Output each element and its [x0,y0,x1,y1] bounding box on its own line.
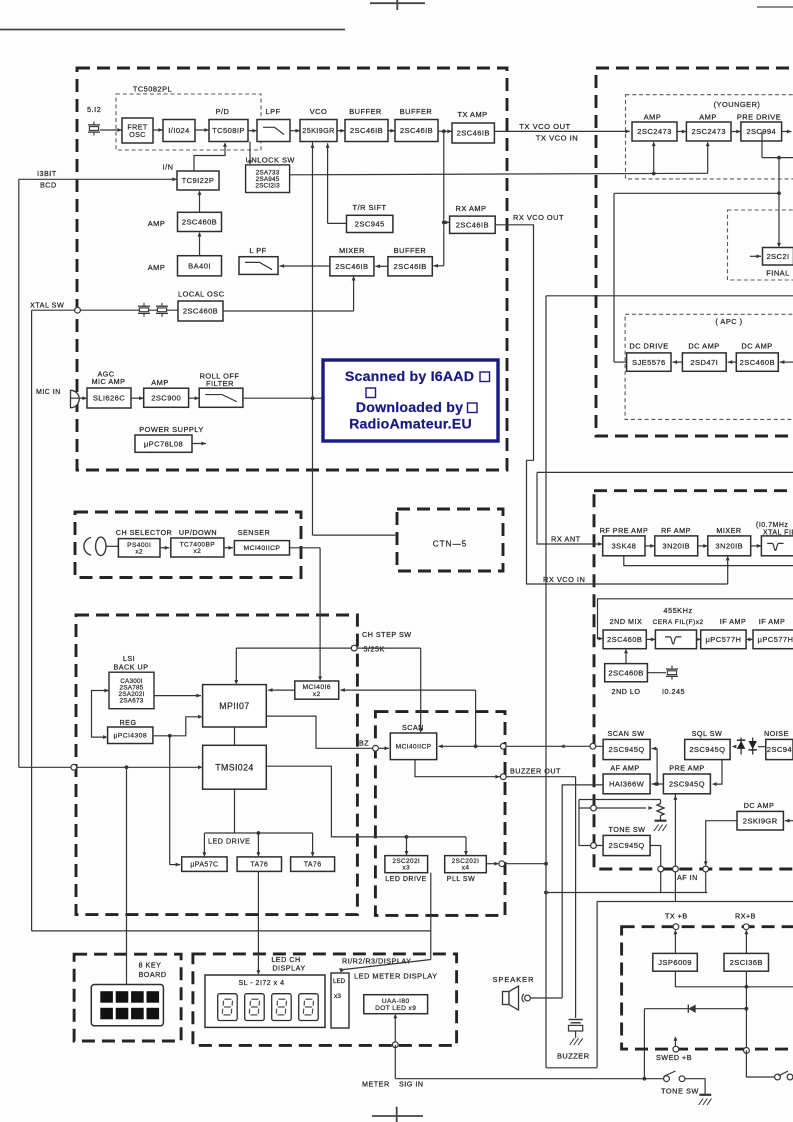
svg-text:MIXER: MIXER [339,246,365,255]
svg-text:XTAL SW: XTAL SW [30,301,64,310]
svg-text:BUFFER: BUFFER [349,107,382,116]
svg-text:MCI40IICP: MCI40IICP [244,545,281,552]
svg-text:BUZZER: BUZZER [557,1052,590,1061]
svg-text:(YOUNGER): (YOUNGER) [714,100,761,109]
svg-text:(I0.7MHz: (I0.7MHz [756,522,788,529]
svg-text:x3: x3 [402,865,410,872]
svg-text:2SC945: 2SC945 [355,220,385,229]
svg-text:VCO: VCO [310,107,328,116]
svg-text:OSC: OSC [129,130,146,139]
svg-text:TX AMP: TX AMP [457,110,487,119]
svg-text:2SC945Q: 2SC945Q [689,745,725,754]
svg-text:μPC78L08: μPC78L08 [144,439,183,448]
svg-text:RadioAmateur.EU: RadioAmateur.EU [349,417,472,433]
svg-text:TA76: TA76 [250,862,268,869]
svg-text:DOT LED x9: DOT LED x9 [375,1005,416,1012]
svg-text:2SC945Q: 2SC945Q [669,780,705,789]
svg-text:HAI366W: HAI366W [609,780,645,789]
svg-text:LED DRIVE: LED DRIVE [208,837,250,846]
svg-text:2ND MIX: 2ND MIX [610,617,643,626]
svg-text:MCI40I6: MCI40I6 [303,684,332,691]
svg-text:LED: LED [333,978,346,985]
svg-text:DC AMP: DC AMP [744,801,775,810]
svg-text:SJE5576: SJE5576 [632,358,666,367]
svg-text:2SCI36B: 2SCI36B [730,958,763,967]
svg-text:2SC945Q: 2SC945Q [609,745,645,754]
svg-text:UP/DOWN: UP/DOWN [179,528,217,537]
svg-text:2SC460B: 2SC460B [182,218,217,227]
svg-text:I/N: I/N [163,163,174,172]
svg-text:x2: x2 [313,691,321,698]
svg-text:2ND LO: 2ND LO [612,687,641,696]
svg-text:TMSI024: TMSI024 [215,762,254,772]
svg-text:x2: x2 [193,548,201,555]
svg-text:I0.245: I0.245 [662,687,685,696]
svg-text:2SC945Q: 2SC945Q [609,841,645,850]
svg-text:TA76: TA76 [304,862,322,869]
svg-text:BA40I: BA40I [188,262,211,271]
svg-text:BUZZER OUT: BUZZER OUT [510,767,561,776]
svg-text:BACK UP: BACK UP [113,662,148,671]
svg-text:UNLOCK SW: UNLOCK SW [246,156,295,165]
svg-text:I/I024: I/I024 [168,126,189,135]
svg-text:SQL SW: SQL SW [692,729,723,738]
svg-text:2SC994: 2SC994 [746,127,776,136]
svg-text:μPC577H: μPC577H [705,635,741,644]
svg-text:SCAN: SCAN [402,723,424,732]
svg-text:AMP: AMP [148,219,166,228]
svg-text:3N20IB: 3N20IB [715,542,743,551]
svg-text:DC AMP: DC AMP [688,342,719,351]
svg-text:2SC46IB: 2SC46IB [350,126,383,135]
svg-text:DC DRIVE: DC DRIVE [629,342,668,351]
svg-text:RI/R2/R3/DISPLAY: RI/R2/R3/DISPLAY [342,957,411,966]
svg-text:AF AMP: AF AMP [610,764,639,773]
svg-text:5.I2: 5.I2 [87,105,101,114]
svg-text:2SC2473: 2SC2473 [691,127,725,136]
svg-text:SCAN SW: SCAN SW [607,729,644,738]
svg-text:2SCI2I3: 2SCI2I3 [255,183,280,190]
svg-text:455KHz: 455KHz [663,606,692,615]
svg-text:MIC IN: MIC IN [36,389,61,396]
svg-text:Downloaded by: Downloaded by [356,400,463,416]
svg-text:RX AMP: RX AMP [456,204,487,213]
svg-text:3N20IB: 3N20IB [662,542,690,551]
svg-text:MPII07: MPII07 [219,701,249,711]
svg-text:5/25K: 5/25K [364,645,385,654]
svg-text:2SC46IB: 2SC46IB [335,262,368,271]
svg-text:REG: REG [119,718,136,727]
svg-text:TONE SW: TONE SW [661,1087,699,1096]
svg-text:T/R SIFT: T/R SIFT [353,203,387,212]
svg-text:LOCAL OSC: LOCAL OSC [178,290,225,299]
svg-text:AMP: AMP [148,263,166,272]
svg-text:METER: METER [362,1080,390,1089]
svg-text:BZ: BZ [359,739,369,748]
svg-text:2SC2473: 2SC2473 [637,127,671,136]
svg-text:IF AMP: IF AMP [759,617,786,626]
svg-text:LED DRIVE: LED DRIVE [385,876,426,883]
svg-text:CTN—5: CTN—5 [433,540,468,549]
svg-text:RF AMP: RF AMP [661,526,691,535]
svg-text:PLL SW: PLL SW [447,876,475,883]
svg-text:x2: x2 [135,549,143,556]
svg-text:2SC2I: 2SC2I [766,252,789,261]
svg-text:CH SELECTOR: CH SELECTOR [116,528,173,537]
svg-text:BOARD: BOARD [138,970,166,979]
svg-text:RX VCO IN: RX VCO IN [543,575,585,584]
svg-text:2SKI9GR: 2SKI9GR [743,816,778,825]
svg-text:x4: x4 [462,865,470,872]
svg-text:I3BIT: I3BIT [37,169,57,178]
svg-text:2SC46IB: 2SC46IB [393,262,426,271]
svg-text:FINAL: FINAL [766,269,789,278]
svg-text:POWER SUPPLY: POWER SUPPLY [139,425,204,434]
svg-text:2SC460B: 2SC460B [608,668,643,677]
svg-text:2SC900: 2SC900 [151,393,181,402]
svg-text:LED METER DISPLAY: LED METER DISPLAY [354,972,438,981]
svg-text:2SC94: 2SC94 [767,745,792,754]
svg-text:TX +B: TX +B [665,912,688,921]
svg-text:SENSER: SENSER [238,528,271,537]
svg-text:x3: x3 [334,993,341,1000]
svg-text:P/D: P/D [216,107,230,116]
svg-text:CERA FIL(F)x2: CERA FIL(F)x2 [653,619,704,626]
svg-text:TX VCO IN: TX VCO IN [536,134,578,143]
svg-text:RX+B: RX+B [735,912,756,921]
svg-text:3SK48: 3SK48 [611,542,636,551]
svg-text:L PF: L PF [249,246,266,255]
svg-text:AF IN: AF IN [677,873,698,882]
svg-text:TC508IP: TC508IP [212,126,245,135]
svg-text:NOISE: NOISE [764,729,789,738]
svg-text:SIG IN: SIG IN [399,1080,424,1089]
svg-text:BUFFER: BUFFER [394,246,427,255]
svg-text:μPC577H: μPC577H [758,635,793,644]
svg-text:JSP6009: JSP6009 [658,958,692,967]
svg-text:BUFFER: BUFFER [400,107,433,116]
svg-text:AMP: AMP [151,378,169,387]
svg-text:SPEAKER: SPEAKER [493,975,535,984]
svg-text:2SD47I: 2SD47I [690,358,718,367]
svg-text:2SC460B: 2SC460B [740,358,775,367]
svg-text:2SA673: 2SA673 [120,698,144,705]
svg-text:IF AMP: IF AMP [720,617,747,626]
svg-text:SLI626C: SLI626C [93,394,125,403]
svg-text:SL - 2I72 x 4: SL - 2I72 x 4 [239,980,285,987]
svg-text:BCD: BCD [40,181,57,190]
svg-text:2SC46IB: 2SC46IB [456,220,489,229]
svg-text:TC9I22P: TC9I22P [182,176,215,185]
svg-text:2SC460B: 2SC460B [183,307,218,316]
svg-text:Scanned by I6AAD: Scanned by I6AAD [345,369,474,385]
svg-text:2SC46IB: 2SC46IB [400,126,433,135]
svg-text:25KI9GR: 25KI9GR [302,126,334,135]
svg-text:TONE SW: TONE SW [609,825,646,834]
svg-text:μPCI4308: μPCI4308 [113,733,147,740]
svg-text:2SC460B: 2SC460B [607,635,642,644]
svg-text:LPF: LPF [265,107,280,116]
svg-text:μPA57C: μPA57C [190,862,218,869]
svg-text:MIC AMP: MIC AMP [92,377,126,386]
svg-text:PRE DRIVE: PRE DRIVE [737,113,781,122]
svg-text:DC AMP: DC AMP [741,342,772,351]
svg-text:8 KEY: 8 KEY [139,961,162,970]
svg-text:( APC ): ( APC ) [715,317,742,326]
svg-text:MCI40IICP: MCI40IICP [396,744,432,751]
svg-text:MIXER: MIXER [716,526,741,535]
svg-text:RF PRE AMP: RF PRE AMP [600,526,649,535]
svg-text:DISPLAY: DISPLAY [272,964,305,973]
svg-text:AMP: AMP [644,113,662,122]
svg-text:RX VCO OUT: RX VCO OUT [513,213,564,222]
svg-text:RX ANT: RX ANT [551,535,581,544]
svg-text:TX VCO OUT: TX VCO OUT [519,122,570,131]
svg-text:CH STEP SW: CH STEP SW [362,630,412,639]
svg-text:AMP: AMP [699,113,717,122]
svg-text:TC5082PL: TC5082PL [133,85,172,94]
svg-text:SWED +B: SWED +B [656,1053,692,1062]
svg-text:FILTER: FILTER [206,379,234,388]
svg-text:PRE AMP: PRE AMP [669,764,704,773]
svg-text:2SC46IB: 2SC46IB [457,129,490,138]
